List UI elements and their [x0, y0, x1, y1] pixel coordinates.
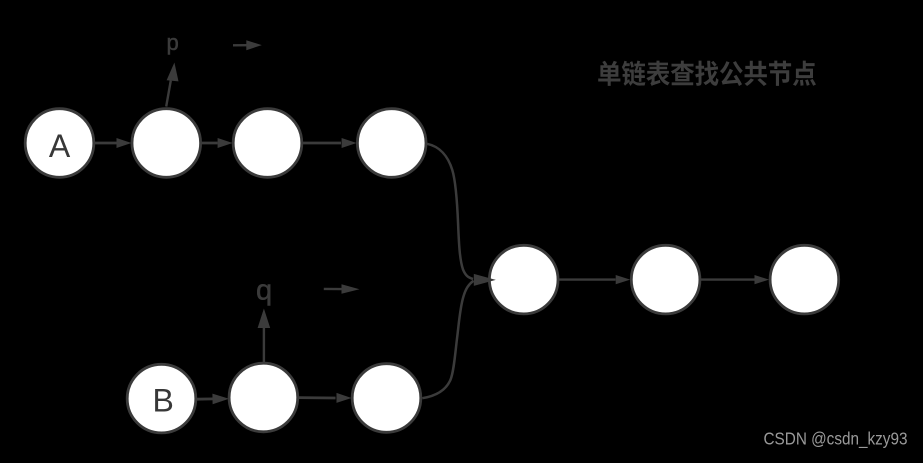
svg-text:B: B — [153, 383, 174, 419]
svg-text:A: A — [49, 128, 71, 164]
svg-text:q: q — [256, 274, 272, 306]
svg-text:CSDN @csdn_kzy93: CSDN @csdn_kzy93 — [764, 429, 908, 450]
svg-text:p: p — [167, 30, 179, 55]
